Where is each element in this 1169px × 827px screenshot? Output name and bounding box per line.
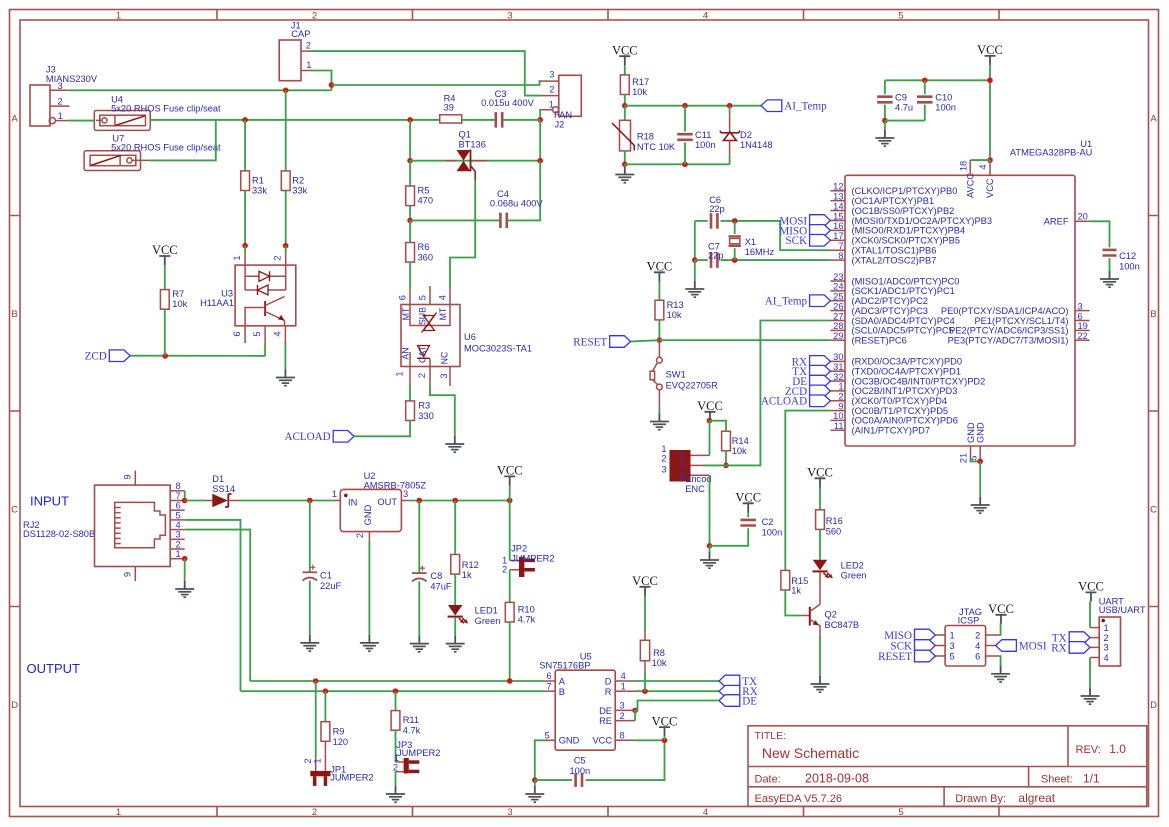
svg-text:2: 2: [306, 41, 311, 51]
svg-text:4.7u: 4.7u: [895, 103, 913, 113]
svg-text:NTC 10K: NTC 10K: [637, 142, 676, 152]
svg-text:4.7k: 4.7k: [403, 726, 421, 736]
svg-text:5: 5: [950, 651, 955, 661]
svg-text:10: 10: [833, 411, 843, 421]
svg-text:algreat: algreat: [1018, 791, 1055, 805]
svg-text:DE: DE: [599, 706, 612, 716]
svg-text:C1: C1: [320, 570, 332, 580]
svg-text:D: D: [11, 700, 18, 711]
svg-text:33k: 33k: [292, 185, 307, 195]
svg-text:TITLE:: TITLE:: [755, 730, 787, 742]
svg-text:15: 15: [833, 211, 843, 221]
svg-text:(MISO1/ADC0/PTCY)PC0: (MISO1/ADC0/PTCY)PC0: [852, 276, 960, 286]
svg-text:1: 1: [679, 451, 684, 461]
svg-text:16: 16: [833, 221, 843, 231]
svg-text:4: 4: [975, 641, 980, 651]
svg-text:1: 1: [116, 807, 121, 818]
svg-text:10k: 10k: [632, 87, 647, 97]
svg-text:5: 5: [898, 807, 903, 818]
svg-text:16MHz: 16MHz: [745, 247, 775, 257]
svg-text:2: 2: [58, 97, 63, 107]
svg-text:B: B: [11, 309, 17, 320]
svg-text:21: 21: [959, 453, 969, 463]
svg-text:3: 3: [176, 530, 181, 540]
svg-text:JUMPER2: JUMPER2: [397, 748, 440, 758]
svg-text:PE2(PTCY/ADC6/ICP3/SS1): PE2(PTCY/ADC6/ICP3/SS1): [949, 326, 1068, 336]
svg-text:3: 3: [950, 641, 955, 651]
svg-text:(RXD0/OC3A/PTCXY)PD0: (RXD0/OC3A/PTCXY)PD0: [852, 357, 963, 367]
svg-text:R12: R12: [462, 560, 479, 570]
svg-text:(XTAL1/TOSC1)PB6: (XTAL1/TOSC1)PB6: [852, 246, 937, 256]
svg-text:3: 3: [58, 81, 63, 91]
svg-text:3: 3: [549, 70, 554, 80]
svg-text:Encod: Encod: [685, 474, 711, 484]
svg-text:C10: C10: [935, 92, 952, 102]
svg-text:470: 470: [418, 196, 434, 206]
svg-text:7: 7: [838, 241, 843, 251]
svg-text:5x20 RHOS Fuse clip/seat: 5x20 RHOS Fuse clip/seat: [111, 142, 221, 152]
svg-text:MOSI: MOSI: [1019, 640, 1047, 652]
svg-text:SCK: SCK: [786, 235, 808, 247]
svg-text:ATMEGA328PB-AU: ATMEGA328PB-AU: [1010, 147, 1093, 157]
svg-text:C5: C5: [574, 756, 586, 766]
svg-text:1: 1: [312, 758, 322, 763]
svg-text:(XCK0/T0/PTCXY)PD4: (XCK0/T0/PTCXY)PD4: [852, 396, 948, 406]
svg-text:1: 1: [1104, 623, 1109, 633]
svg-text:C8: C8: [430, 571, 442, 581]
svg-text:1: 1: [116, 10, 121, 21]
svg-text:EVQ22705R: EVQ22705R: [666, 381, 718, 391]
svg-text:30: 30: [833, 352, 843, 362]
svg-text:(ADC2/PTCY)PC2: (ADC2/PTCY)PC2: [852, 296, 928, 306]
svg-text:8: 8: [176, 481, 181, 491]
svg-text:7: 7: [176, 491, 181, 501]
svg-text:X1: X1: [745, 237, 756, 247]
svg-text:R: R: [605, 687, 612, 697]
svg-text:AI_Temp: AI_Temp: [765, 296, 808, 308]
svg-text:MOC3023S-TA1: MOC3023S-TA1: [464, 344, 532, 354]
svg-text:6: 6: [1078, 311, 1083, 321]
svg-text:C11: C11: [695, 130, 711, 140]
svg-text:R18: R18: [637, 131, 654, 141]
svg-text:GND: GND: [559, 736, 580, 746]
svg-text:1: 1: [332, 489, 337, 499]
svg-text:SW1: SW1: [666, 370, 686, 380]
svg-text:47uF: 47uF: [430, 582, 452, 592]
svg-text:4: 4: [703, 807, 708, 818]
svg-text:AVCC: AVCC: [965, 173, 975, 198]
svg-text:(MOSI0/TXD1/OC2A/PTCXY)PB3: (MOSI0/TXD1/OC2A/PTCXY)PB3: [852, 216, 993, 226]
svg-text:120: 120: [333, 737, 349, 747]
svg-text:(XTAL2/TOSC2)PB7: (XTAL2/TOSC2)PB7: [852, 255, 937, 265]
svg-text:2: 2: [312, 807, 317, 818]
svg-text:SN75176BP: SN75176BP: [539, 660, 590, 670]
svg-text:100n: 100n: [1119, 262, 1140, 272]
svg-text:RESET: RESET: [878, 651, 912, 663]
svg-text:5x20 RHOS Fuse clip/seat: 5x20 RHOS Fuse clip/seat: [111, 103, 221, 113]
svg-text:1: 1: [306, 60, 311, 70]
svg-text:DE: DE: [742, 695, 757, 707]
svg-text:22p: 22p: [709, 204, 725, 214]
svg-text:MIANS230V: MIANS230V: [46, 74, 98, 84]
svg-text:Date:: Date:: [755, 773, 781, 785]
svg-text:1: 1: [232, 255, 242, 260]
svg-text:IN: IN: [348, 497, 357, 507]
svg-text:3: 3: [403, 489, 408, 499]
svg-text:4: 4: [176, 520, 181, 530]
svg-text:JP2: JP2: [511, 544, 527, 554]
svg-text:18: 18: [958, 161, 968, 171]
svg-text:USB/UART: USB/UART: [1099, 605, 1146, 615]
svg-text:13: 13: [833, 192, 843, 202]
svg-text:R5: R5: [418, 186, 430, 196]
svg-text:2: 2: [393, 763, 398, 773]
svg-text:4: 4: [1104, 653, 1109, 663]
svg-text:12: 12: [833, 182, 843, 192]
svg-text:MT: MT: [438, 307, 448, 320]
svg-text:5: 5: [898, 10, 903, 21]
svg-text:5: 5: [176, 510, 181, 520]
svg-text:6: 6: [176, 501, 181, 511]
svg-text:0.015u 400V: 0.015u 400V: [481, 98, 535, 108]
svg-text:22: 22: [1078, 331, 1088, 341]
svg-text:560: 560: [826, 526, 842, 536]
svg-text:6: 6: [975, 651, 980, 661]
svg-text:ENC: ENC: [685, 484, 705, 494]
svg-text:RX: RX: [1051, 642, 1066, 654]
svg-text:CAP: CAP: [291, 29, 310, 39]
svg-text:B: B: [559, 687, 565, 697]
svg-text:ACLOAD: ACLOAD: [284, 431, 330, 443]
svg-text:2: 2: [417, 373, 427, 378]
svg-text:R16: R16: [826, 516, 843, 526]
svg-text:33k: 33k: [252, 185, 267, 195]
svg-text:U3: U3: [221, 289, 233, 299]
svg-text:ICSP: ICSP: [958, 616, 980, 626]
svg-text:R6: R6: [418, 242, 430, 252]
svg-text:BT136: BT136: [459, 140, 486, 150]
svg-text:4: 4: [978, 164, 988, 169]
svg-text:R11: R11: [403, 715, 419, 725]
svg-text:1: 1: [176, 549, 181, 559]
svg-text:AREF: AREF: [1044, 217, 1069, 227]
svg-text:(OC3B/OC4B/INT0/PTCXY)PD2: (OC3B/OC4B/INT0/PTCXY)PD2: [852, 376, 986, 386]
svg-text:VCC: VCC: [985, 178, 995, 198]
svg-text:LED2: LED2: [841, 561, 864, 571]
svg-text:BC847B: BC847B: [825, 620, 860, 630]
svg-text:2: 2: [355, 533, 365, 538]
svg-text:100n: 100n: [695, 140, 716, 150]
svg-text:LED1: LED1: [475, 606, 498, 616]
svg-text:39: 39: [444, 103, 454, 113]
svg-text:2: 2: [549, 84, 554, 94]
svg-text:7: 7: [546, 681, 551, 691]
svg-text:3: 3: [507, 807, 512, 818]
svg-text:J2: J2: [555, 120, 565, 130]
svg-text:PE1(PTCXY/SCL1/T4): PE1(PTCXY/SCL1/T4): [974, 316, 1068, 326]
svg-text:(CLKO/ICP1/PTCXY)PB0: (CLKO/ICP1/PTCXY)PB0: [852, 186, 958, 196]
svg-text:27: 27: [833, 311, 843, 321]
svg-text:AN: AN: [401, 347, 411, 359]
svg-text:5: 5: [252, 331, 262, 336]
svg-text:(ADC3/PTCY)PC3: (ADC3/PTCY)PC3: [852, 306, 928, 316]
svg-text:(TXD0/OC4A/PTCXY)PD1: (TXD0/OC4A/PTCXY)PD1: [852, 367, 962, 377]
svg-text:PE3(PTCY/ADC7/T3/MOSI1): PE3(PTCY/ADC7/T3/MOSI1): [948, 336, 1069, 346]
svg-text:10k: 10k: [732, 446, 747, 456]
svg-text:1k: 1k: [791, 585, 801, 595]
svg-text:GND: GND: [363, 504, 373, 525]
svg-text:24: 24: [833, 282, 843, 292]
svg-text:C4: C4: [497, 189, 509, 199]
svg-text:11: 11: [834, 421, 844, 431]
svg-text:2: 2: [176, 539, 181, 549]
svg-text:22uF: 22uF: [320, 581, 342, 591]
svg-text:B: B: [1150, 309, 1156, 320]
svg-text:14: 14: [833, 201, 843, 211]
svg-text:10k: 10k: [652, 658, 667, 668]
svg-text:5: 5: [418, 295, 428, 300]
svg-text:4: 4: [438, 295, 448, 300]
svg-text:5: 5: [545, 730, 550, 740]
svg-text:Sheet:: Sheet:: [1041, 773, 1073, 785]
svg-text:2: 2: [661, 454, 666, 464]
svg-text:0.068u 400V: 0.068u 400V: [490, 199, 544, 209]
svg-text:D2: D2: [740, 130, 752, 140]
svg-text:(RESET)PC6: (RESET)PC6: [852, 336, 907, 346]
svg-text:D: D: [1150, 700, 1157, 711]
svg-text:AMSRB-7805Z: AMSRB-7805Z: [364, 481, 427, 491]
svg-text:C: C: [11, 505, 18, 516]
svg-text:4: 4: [273, 331, 283, 336]
svg-text:New Schematic: New Schematic: [762, 745, 859, 761]
svg-text:JUMPER2: JUMPER2: [511, 553, 554, 563]
svg-text:JUMPER2: JUMPER2: [330, 773, 373, 783]
svg-text:(OC1B/SS0/PTCXY)PB2: (OC1B/SS0/PTCXY)PB2: [852, 206, 955, 216]
svg-text:6: 6: [546, 671, 551, 681]
svg-text:20: 20: [1078, 212, 1088, 222]
svg-text:H11AA1: H11AA1: [200, 298, 234, 308]
svg-text:(OC1A/PTCXY)PB1: (OC1A/PTCXY)PB1: [852, 196, 935, 206]
svg-text:100n: 100n: [762, 528, 783, 538]
svg-text:1: 1: [395, 371, 405, 376]
svg-text:(XCK0/SCK0/PTCXY)PB5: (XCK0/SCK0/PTCXY)PB5: [852, 236, 961, 246]
svg-text:4.7k: 4.7k: [518, 615, 536, 625]
svg-text:1: 1: [58, 111, 63, 121]
svg-text:(OC0B/T1/PTCXY)PD5: (OC0B/T1/PTCXY)PD5: [852, 406, 949, 416]
svg-text:9: 9: [123, 474, 133, 479]
svg-text:A: A: [11, 114, 18, 125]
svg-text:2: 2: [679, 460, 684, 470]
svg-text:(SCK1/ADC1/PTCY)PC1: (SCK1/ADC1/PTCY)PC1: [852, 286, 955, 296]
svg-text:2: 2: [273, 255, 283, 260]
svg-text:3: 3: [1104, 643, 1109, 653]
svg-text:(SCL0/ADC5/PTCY)PC5: (SCL0/ADC5/PTCY)PC5: [852, 326, 954, 336]
svg-text:100n: 100n: [570, 766, 591, 776]
svg-text:(OC0A/AIN0/PTCXY)PD6: (OC0A/AIN0/PTCXY)PD6: [852, 416, 958, 426]
svg-text:3: 3: [507, 10, 512, 21]
svg-text:D: D: [605, 677, 612, 687]
svg-text:RESET: RESET: [573, 336, 607, 348]
svg-text:3: 3: [661, 464, 666, 474]
svg-text:2: 2: [1104, 633, 1109, 643]
svg-text:4: 4: [621, 671, 626, 681]
svg-text:1N4148: 1N4148: [740, 140, 773, 150]
svg-text:R7: R7: [172, 289, 184, 299]
svg-text:10k: 10k: [667, 310, 682, 320]
svg-text:8: 8: [838, 251, 843, 261]
svg-text:26: 26: [833, 301, 843, 311]
svg-text:1.0: 1.0: [1109, 742, 1126, 756]
svg-text:23: 23: [833, 272, 843, 282]
svg-text:R14: R14: [732, 436, 749, 446]
svg-text:22p: 22p: [708, 251, 724, 261]
svg-text:10k: 10k: [172, 299, 187, 309]
svg-text:1/1: 1/1: [1083, 771, 1100, 785]
svg-text:OUT: OUT: [377, 497, 397, 507]
svg-text:1k: 1k: [462, 570, 472, 580]
svg-text:(SDA0/ADC4/PTCY)PC4: (SDA0/ADC4/PTCY)PC4: [852, 316, 955, 326]
svg-text:330: 330: [418, 411, 434, 421]
svg-text:ACLOAD: ACLOAD: [761, 396, 807, 408]
svg-text:R10: R10: [518, 605, 535, 615]
svg-text:2018-09-08: 2018-09-08: [805, 771, 869, 785]
svg-text:6: 6: [232, 331, 242, 336]
svg-text:PE0(PTCXY/SDA1/ICP4/ACO): PE0(PTCXY/SDA1/ICP4/ACO): [941, 306, 1069, 316]
svg-text:(OC2B/INT1/PTCXY)PD3: (OC2B/INT1/PTCXY)PD3: [852, 386, 958, 396]
svg-text:8: 8: [620, 730, 625, 740]
svg-text:C2: C2: [762, 517, 774, 527]
svg-text:R17: R17: [632, 77, 649, 87]
svg-text:1: 1: [621, 681, 626, 691]
svg-text:3: 3: [1078, 301, 1083, 311]
svg-text:C9: C9: [895, 92, 907, 102]
svg-text:REV:: REV:: [1076, 744, 1101, 756]
svg-text:29: 29: [833, 331, 843, 341]
svg-text:19: 19: [1078, 321, 1088, 331]
svg-text:C12: C12: [1119, 251, 1136, 261]
svg-text:31: 31: [833, 362, 843, 372]
svg-text:360: 360: [418, 252, 434, 262]
svg-text:DS1128-02-S80B: DS1128-02-S80B: [23, 529, 95, 539]
svg-text:9: 9: [123, 572, 133, 577]
svg-text:9: 9: [838, 401, 843, 411]
svg-text:(MISO0/RXD1/PTCXY)PB4: (MISO0/RXD1/PTCXY)PB4: [852, 226, 966, 236]
svg-text:C: C: [1150, 505, 1157, 516]
svg-text:AI_Temp: AI_Temp: [784, 101, 827, 113]
svg-text:RE: RE: [599, 716, 612, 726]
svg-text:2: 2: [312, 10, 317, 21]
svg-text:R9: R9: [333, 727, 345, 737]
svg-text:GND: GND: [966, 422, 976, 443]
svg-text:3: 3: [679, 471, 684, 481]
svg-text:ZCD: ZCD: [85, 351, 107, 363]
svg-text:Q1: Q1: [459, 130, 471, 140]
svg-text:2: 2: [502, 565, 507, 575]
svg-text:R8: R8: [653, 648, 665, 658]
svg-text:GND: GND: [976, 422, 986, 443]
svg-text:1: 1: [950, 630, 955, 640]
svg-text:(AIN1/PTCXY)PD7: (AIN1/PTCXY)PD7: [852, 426, 931, 436]
svg-text:FAN: FAN: [554, 110, 572, 120]
svg-text:32: 32: [833, 372, 843, 382]
svg-text:Green: Green: [475, 616, 501, 626]
svg-text:EasyEDA V5.7.26: EasyEDA V5.7.26: [755, 793, 842, 805]
svg-text:1: 1: [838, 382, 843, 392]
svg-text:R2: R2: [292, 176, 304, 186]
svg-text:2: 2: [975, 630, 980, 640]
svg-text:A: A: [1150, 114, 1157, 125]
svg-text:INPUT: INPUT: [30, 494, 69, 509]
svg-text:6: 6: [398, 295, 408, 300]
svg-text:3: 3: [620, 701, 625, 711]
svg-text:Drawn By:: Drawn By:: [955, 793, 1006, 805]
svg-text:R1: R1: [252, 176, 264, 186]
svg-text:2: 2: [838, 392, 843, 402]
svg-text:A: A: [559, 677, 566, 687]
svg-text:Green: Green: [841, 571, 867, 581]
svg-text:4: 4: [703, 10, 708, 21]
svg-text:NC: NC: [440, 351, 450, 364]
svg-text:100n: 100n: [935, 103, 956, 113]
svg-text:1: 1: [394, 753, 399, 763]
svg-text:17: 17: [833, 231, 843, 241]
svg-text:3: 3: [439, 373, 449, 378]
svg-text:D1: D1: [212, 474, 224, 484]
svg-text:R13: R13: [667, 300, 684, 310]
svg-text:U6: U6: [464, 332, 476, 342]
svg-text:R3: R3: [418, 401, 430, 411]
svg-text:2: 2: [620, 711, 625, 721]
svg-text:OUTPUT: OUTPUT: [27, 661, 81, 676]
svg-text:25: 25: [833, 292, 843, 302]
svg-text:Q2: Q2: [825, 610, 837, 620]
svg-text:28: 28: [833, 321, 843, 331]
svg-text:VCC: VCC: [592, 736, 612, 746]
svg-text:SS14: SS14: [212, 484, 235, 494]
